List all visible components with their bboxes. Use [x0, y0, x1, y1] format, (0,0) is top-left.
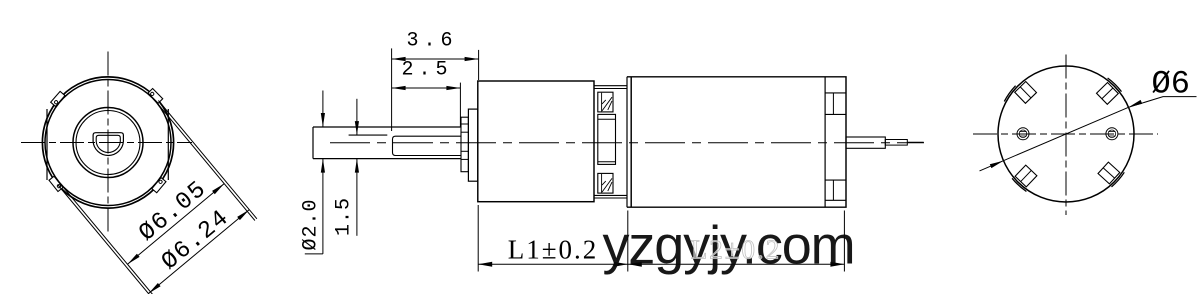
side view: end cap lower brush block	[825, 179, 846, 181]
side view: gear stage neck top lines	[594, 85, 627, 87]
dim L1: dimension line with arrows	[478, 263, 628, 265]
dim L2: dimension line with arrows	[628, 263, 845, 265]
side view: lower motor-pinion bearing (hatched bearing section)	[598, 173, 613, 193]
svg-text:L1±0.2: L1±0.2	[508, 235, 599, 265]
side view: upper motor-pinion bearing (hatched bearing section)	[598, 92, 613, 112]
dim Ø6: leader tail and shoulder	[1129, 97, 1197, 108]
left view: crimp tab at lower-left	[49, 176, 63, 191]
right view: left screw hole	[1017, 128, 1029, 140]
svg-text:1.5: 1.5	[333, 197, 356, 236]
svg-text:3.6: 3.6	[406, 30, 457, 53]
right view: rim lip arc at lower-left tab	[1012, 178, 1026, 191]
side view: rear shaft stub	[885, 140, 907, 146]
right view: crimp tab at lower-right	[1098, 162, 1120, 184]
dim 3.6: extension line left	[391, 48, 393, 131]
left view: motor can outer circle (diam 6.24)	[42, 77, 173, 208]
left view: crimp tab at upper-right	[148, 89, 163, 104]
side view: shaft bearing sleeve	[393, 136, 462, 155]
right view: end cap circle	[998, 66, 1134, 202]
dim 3.6: dimension line with arrows	[392, 58, 479, 60]
side view: motor front face (double line)	[626, 77, 628, 207]
left view: extension line upper-right (pair for both diameters)	[156, 102, 255, 220]
side view: end cap upper brush block	[825, 92, 846, 94]
left view: vertical centerline	[107, 52, 109, 234]
dim 3.6: extension line right (gearbox face extended)	[478, 50, 480, 80]
side view: shaft D-flat edge line	[349, 134, 388, 136]
side view: gearbox front plate	[468, 109, 477, 181]
left view: horizontal centerline	[21, 142, 192, 144]
left view: left side flat chord	[46, 109, 48, 180]
left view: right side flat chord	[167, 109, 169, 180]
right view: crimp tab at upper-right	[1097, 83, 1119, 105]
dim L1: extension line left (gearbox face extended down)	[477, 205, 479, 272]
dim Ø6: arrow at upper-right rim	[1129, 100, 1143, 107]
side view: gearbox housing body	[478, 81, 594, 202]
dim Ø6: arrow at lower-left rim	[990, 161, 1004, 168]
svg-text:L2±0.2: L2±0.2	[691, 235, 782, 265]
right view: right screw hole	[1106, 128, 1118, 140]
side view: main centerline	[330, 142, 924, 144]
left view: dimension line diameter 6.05 with arrows	[128, 184, 225, 265]
right view: vertical centerline	[1065, 55, 1067, 216]
left view: D-cut shaft bore outer outline	[93, 133, 123, 156]
right view: crimp tab at lower-left	[1015, 165, 1037, 187]
dim 2.5: dimension line with arrows	[392, 87, 461, 89]
left view: bearing boss outer circle	[73, 108, 143, 178]
side view: gear train middle block	[598, 114, 616, 164]
left view: crimp tab at lower-right	[152, 178, 166, 193]
dim Ø6: diameter line across circle	[980, 107, 1129, 171]
right view: crimp tab at upper-left	[1015, 82, 1037, 104]
dim 1.5: upper dim line with arrow	[356, 99, 358, 135]
right view: rim lip arc at upper-left tab	[1004, 86, 1015, 102]
side view: front bearing stack	[461, 117, 468, 172]
dim 2.5: extension line right	[459, 83, 461, 127]
side view: rear shaft boss	[846, 137, 885, 148]
right view: rim lip arc at lower-right tab	[1112, 172, 1125, 187]
dim Ø2.0: upper dim line with arrow	[322, 91, 324, 128]
side view: motor end cap seam	[824, 77, 826, 207]
right view: horizontal centerline	[973, 133, 1158, 135]
dim L2: extension line right (end cap extended down)	[843, 211, 845, 272]
left view: D-cut shaft bore inner outline	[96, 135, 120, 152]
side view: rear shaft tip line	[907, 141, 923, 143]
svg-text:2.5: 2.5	[401, 59, 452, 82]
dim L1/L2: shared extension line (motor face extended down)	[627, 211, 629, 272]
left view: motor can inner rim circle (diam 6.05)	[45, 80, 171, 206]
side view: motor body outline	[627, 77, 846, 207]
right view: rim lip arc at upper-right tab	[1108, 78, 1122, 92]
left view: extension line lower-left (pair for both diameters)	[60, 183, 162, 294]
svg-text:Ø2.0: Ø2.0	[300, 198, 323, 250]
left view: bearing boss inner circle	[76, 111, 140, 175]
side view: output shaft outline	[313, 126, 461, 128]
dim Ø2.0: lower dim line with arrow and end tick	[322, 159, 324, 254]
svg-text:Ø6: Ø6	[1152, 66, 1190, 103]
side view: gear stage neck bottom lines	[594, 194, 627, 196]
left view: dimension line diameter 6.24 with arrows	[149, 210, 250, 294]
left view: crimp tab at upper-left	[51, 91, 65, 106]
dim 1.5: lower dim line with arrow	[356, 159, 358, 236]
